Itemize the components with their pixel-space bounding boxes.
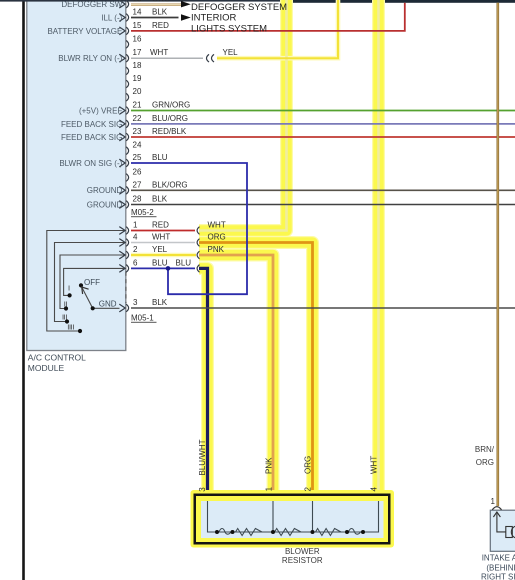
svg-text:PNK: PNK: [208, 245, 225, 254]
svg-text:24: 24: [133, 141, 142, 150]
svg-text:YEL: YEL: [152, 245, 168, 254]
svg-text:3: 3: [198, 487, 207, 492]
svg-text:BRN/: BRN/: [475, 445, 495, 454]
svg-text:BLK: BLK: [152, 195, 168, 204]
svg-text:ORG: ORG: [208, 232, 226, 241]
svg-text:BLK: BLK: [152, 8, 168, 17]
svg-text:BLWR ON SIG (-): BLWR ON SIG (-): [59, 159, 122, 168]
svg-text:M05-1: M05-1: [131, 313, 154, 322]
svg-text:18: 18: [133, 61, 142, 70]
svg-text:DEFOGGER SW: DEFOGGER SW: [61, 0, 122, 9]
svg-text:BLK: BLK: [152, 298, 168, 307]
svg-text:2: 2: [133, 245, 138, 254]
svg-text:BLU: BLU: [152, 258, 168, 267]
svg-text:ORG: ORG: [476, 458, 494, 467]
svg-text:II: II: [64, 299, 68, 308]
svg-text:20: 20: [133, 87, 142, 96]
svg-text:BLU: BLU: [176, 258, 192, 267]
svg-text:ORG: ORG: [304, 456, 313, 474]
svg-text:RED: RED: [152, 21, 169, 30]
svg-text:GROUND: GROUND: [87, 186, 123, 195]
svg-text:BLU: BLU: [152, 153, 168, 162]
svg-text:FEED BACK SIG: FEED BACK SIG: [61, 133, 122, 142]
svg-text:1: 1: [133, 221, 138, 230]
svg-text:25: 25: [133, 153, 142, 162]
svg-text:1: 1: [265, 486, 274, 491]
svg-text:19: 19: [133, 74, 142, 83]
svg-text:(+5V) VREF: (+5V) VREF: [79, 106, 122, 115]
svg-text:DEFOGGER SYSTEM: DEFOGGER SYSTEM: [191, 2, 287, 13]
svg-text:22: 22: [133, 114, 142, 123]
svg-text:16: 16: [133, 34, 142, 43]
svg-text:15: 15: [133, 21, 142, 30]
svg-text:IIII: IIII: [67, 323, 74, 332]
svg-text:14: 14: [133, 8, 142, 17]
svg-text:III: III: [62, 313, 67, 322]
svg-text:WHT: WHT: [152, 233, 170, 242]
svg-text:WHT: WHT: [370, 456, 379, 474]
svg-text:OFF: OFF: [84, 278, 100, 287]
svg-text:WHT: WHT: [208, 220, 226, 229]
svg-text:4: 4: [133, 233, 138, 242]
svg-text:13: 13: [133, 0, 142, 4]
svg-text:BLK/ORG: BLK/ORG: [152, 180, 188, 189]
svg-text:RIGHT SIDE: RIGHT SIDE: [481, 572, 515, 580]
svg-text:23: 23: [133, 127, 142, 136]
svg-text:GND: GND: [99, 299, 117, 308]
svg-text:GRN/ORG: GRN/ORG: [152, 101, 190, 110]
svg-text:2: 2: [304, 487, 313, 492]
svg-text:PNK: PNK: [265, 457, 274, 474]
svg-text:26: 26: [133, 168, 142, 177]
svg-text:BLWR RLY ON (-): BLWR RLY ON (-): [58, 54, 122, 63]
svg-text:BLU/WHT: BLU/WHT: [198, 439, 207, 475]
svg-text:ORG: ORG: [152, 0, 170, 4]
svg-text:28: 28: [133, 195, 142, 204]
svg-text:4: 4: [370, 487, 379, 492]
svg-text:YEL: YEL: [223, 48, 239, 57]
svg-text:27: 27: [133, 180, 142, 189]
svg-text:INTAKE ACT: INTAKE ACT: [482, 554, 515, 563]
svg-text:17: 17: [133, 48, 142, 57]
svg-text:1: 1: [491, 497, 496, 506]
svg-text:3: 3: [133, 298, 138, 307]
svg-text:RED/BLK: RED/BLK: [152, 127, 187, 136]
svg-text:WHT: WHT: [150, 48, 168, 57]
svg-text:RESISTOR: RESISTOR: [282, 556, 323, 565]
svg-text:GROUND: GROUND: [87, 200, 123, 209]
svg-text:A/C CONTROL: A/C CONTROL: [28, 353, 86, 363]
svg-text:I: I: [68, 284, 70, 293]
svg-text:MODULE: MODULE: [28, 363, 65, 373]
svg-text:LIGHTS SYSTEM: LIGHTS SYSTEM: [191, 23, 267, 34]
svg-text:BLOWER: BLOWER: [285, 547, 320, 556]
svg-text:FEED BACK SIG: FEED BACK SIG: [61, 120, 122, 129]
svg-text:21: 21: [133, 101, 142, 110]
svg-text:RED: RED: [152, 221, 169, 230]
svg-text:BLU/ORG: BLU/ORG: [152, 114, 188, 123]
svg-text:M05-2: M05-2: [131, 208, 154, 217]
svg-text:ILL (-): ILL (-): [101, 13, 122, 22]
svg-text:INTERIOR: INTERIOR: [191, 13, 237, 24]
svg-text:BATTERY VOLTAGE: BATTERY VOLTAGE: [47, 27, 122, 36]
svg-text:6: 6: [133, 258, 138, 267]
